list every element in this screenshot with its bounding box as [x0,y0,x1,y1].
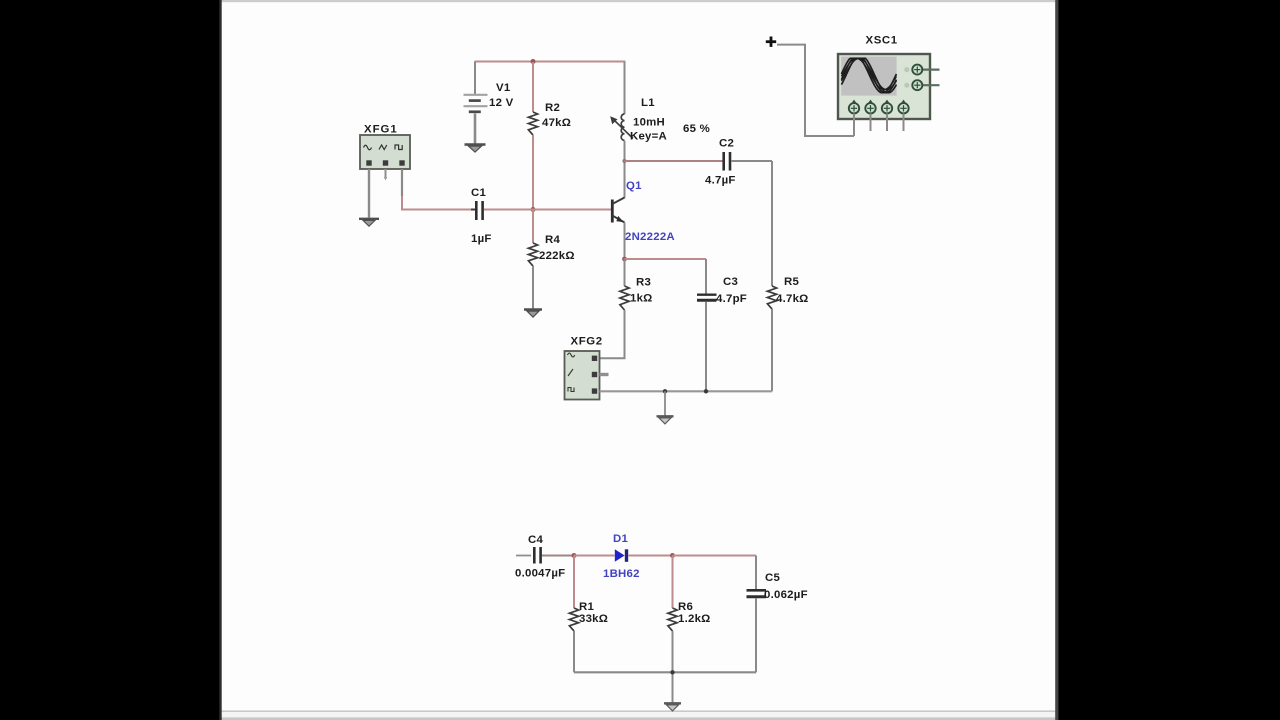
svg-text:1BH62: 1BH62 [603,568,640,580]
wire probe to scope input [777,45,854,136]
svg-text:2N2222A: 2N2222A [625,231,675,243]
wire C1 to Q1 base [484,209,612,211]
wire R4 bottom to ground [532,266,534,309]
capacitor C2 [724,152,730,171]
wire R3 bottom to XFG2 terminal 1 [599,310,625,358]
svg-text:L1: L1 [641,97,655,109]
wire R2 bottom to base node [532,135,534,210]
wire D1 cathode to R6 junction [633,555,673,557]
wire junction to C5 corner [673,555,757,557]
svg-text:XFG1: XFG1 [364,124,398,136]
junction node D1 / R6 / C5 [670,553,675,558]
svg-text:0.0047µF: 0.0047µF [515,568,565,580]
wire junction down to R1 [573,556,575,609]
capacitor C1 [471,201,488,220]
resistor R2 [528,112,537,135]
junction node bus / ground [663,389,667,393]
svg-text:Q1: Q1 [626,180,642,192]
junction node collector / C2 wire [622,159,626,163]
svg-text:4.7kΩ: 4.7kΩ [776,293,809,305]
probe plus terminal [766,37,776,47]
wire rail to V1 top lead [474,62,476,95]
wire L1 bottom to Q1 collector [624,141,626,198]
capacitor C3 [697,295,717,301]
resistor R1 [569,608,578,631]
junction node base wire / R2 R4 [531,207,536,212]
function generator XFG1 [360,135,410,169]
svg-text:C5: C5 [765,572,780,584]
stub XFG2 terminal 2 [600,373,609,376]
svg-text:C3: C3 [723,276,738,288]
wire Q1 collector node to C2 [625,160,724,162]
wire R6 bottom through bus to ground [672,631,674,703]
svg-text:1kΩ: 1kΩ [630,293,653,305]
function generator XFG2 [565,351,600,400]
wire V1 minus to ground [474,114,477,144]
ground below V1 [465,145,486,153]
svg-text:1.2kΩ: 1.2kΩ [678,613,711,625]
ground below bottom bus [664,703,681,711]
svg-text:4.7µF: 4.7µF [705,175,736,187]
svg-text:33kΩ: 33kΩ [579,613,608,625]
svg-text:4.7pF: 4.7pF [716,293,747,305]
svg-text:R2: R2 [545,102,560,114]
wire C5 bottom to bus corner [755,598,757,672]
wire junction down to R6 [672,556,674,609]
wire XFG1 minus terminal to ground [368,169,370,218]
wire V1 plus to L1 top rail (red) [475,61,626,63]
svg-text:222kΩ: 222kΩ [539,250,575,262]
junction node emitter / C3 wire [622,257,627,262]
svg-text:V1: V1 [496,82,511,94]
wire junction to D1 anode [574,555,615,557]
wire emitter node to C3 corner [625,258,707,260]
svg-text:0.062µF: 0.062µF [764,589,808,601]
ground below R4 [524,310,542,318]
wire C4 to R1 junction [542,555,574,557]
wire C3 bottom to ground bus [705,302,707,392]
svg-text:65 %: 65 % [683,123,710,135]
resistor R3 [620,286,629,310]
wire C5 corner down to C5 [755,556,757,590]
svg-text:R1: R1 [579,601,594,613]
svg-text:Key=A: Key=A [630,131,667,143]
svg-text:47kΩ: 47kΩ [542,117,571,129]
svg-text:10mH: 10mH [633,117,665,129]
svg-text:R3: R3 [636,277,651,289]
wire base node to R4 top [532,210,534,244]
wire C2 to R5 corner [731,160,772,162]
svg-text:C1: C1 [471,187,486,199]
wire corner down to C3 top [705,259,707,294]
wire Q1 emitter down [624,223,626,260]
wire emitter node to R3 top [624,259,626,286]
svg-text:R4: R4 [545,234,560,246]
wire ground bus XFG2 to R5 [600,390,773,392]
capacitor C5 [747,590,767,597]
svg-text:12 V: 12 V [489,97,514,109]
ground below XFG1 [359,219,379,226]
oscilloscope XSC1 [838,54,940,119]
resistor R6 [668,608,677,631]
transistor Q1 2N2222A [612,198,624,223]
ground below bus [657,416,674,424]
diode D1 [615,549,634,562]
svg-text:C4: C4 [528,534,543,546]
resistor R5 [767,286,776,309]
svg-text:R5: R5 [784,276,799,288]
wire scope terminal stems [854,114,904,137]
battery V1 [464,95,488,112]
wire R1 bottom to bus [573,631,575,672]
capacitor C4 [534,547,540,564]
wire bottom ground bus [574,671,756,673]
svg-text:XFG2: XFG2 [571,336,603,348]
wire XFG1 to C1 (base net) [401,209,475,211]
stub wire left of C4 [516,555,531,557]
junction node C4 / R1 / D1 [572,553,577,558]
svg-text:R6: R6 [678,601,693,613]
wire R5 bottom to bus corner [771,309,773,391]
wire rail corner down to L1 [624,62,626,115]
junction node bottom bus / ground [670,670,674,674]
svg-text:XSC1: XSC1 [866,35,898,47]
svg-text:D1: D1 [613,533,628,545]
svg-text:1µF: 1µF [471,233,492,245]
svg-text:C2: C2 [719,138,734,150]
resistor R4 [528,243,537,266]
inductor L1 (variable) [610,114,633,140]
wire XFG1 plus terminal down [401,169,403,196]
junction node rail / R2 [531,59,536,64]
wire bus to ground symbol [664,391,666,415]
wire C2 corner down to R5 [771,161,773,286]
wire rail to R2 top [532,62,534,112]
stub XFG1 common terminal [385,169,387,178]
junction node bus / C3 [704,389,708,393]
